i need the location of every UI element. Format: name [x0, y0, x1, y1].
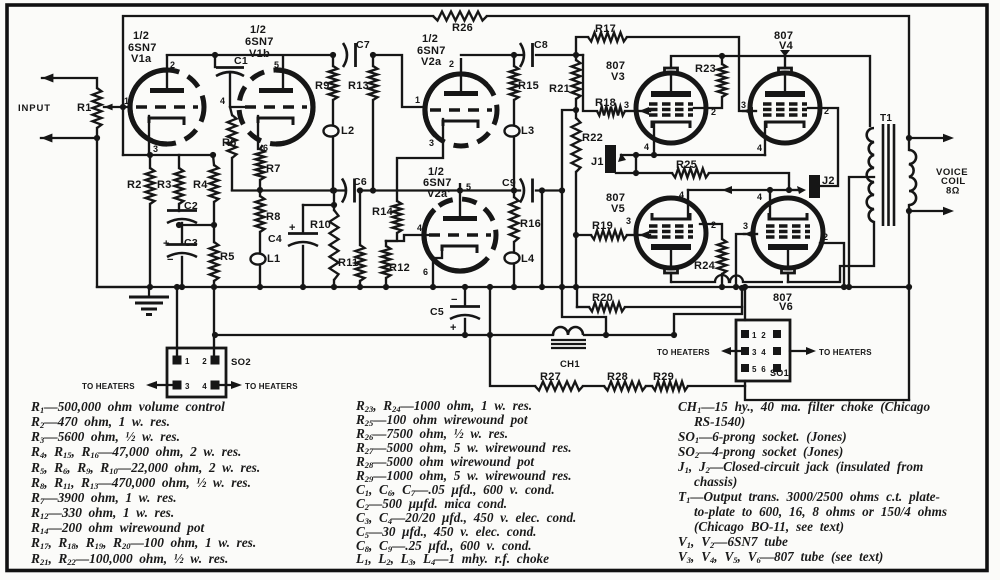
resistor R6 — [228, 115, 237, 158]
inductor L1 — [251, 253, 266, 264]
wire R27-R28 — [583, 385, 604, 387]
SO1 pin 5 — [741, 364, 749, 372]
svg-text:T1: T1 — [880, 113, 892, 124]
SO2 pin 2 — [211, 356, 220, 365]
plate wire with hops — [671, 275, 783, 282]
svg-text:V3: V3 — [611, 71, 625, 83]
tube V1a — [130, 54, 204, 144]
svg-text:INPUT: INPUT — [18, 103, 51, 114]
junction bus C4 — [300, 284, 306, 290]
SO2 pin 3 — [173, 381, 182, 390]
svg-text:5: 5 — [274, 60, 279, 70]
wire bus2 riser staircase — [674, 288, 742, 335]
socket SO1 box — [736, 320, 790, 381]
svg-text:TO HEATERS: TO HEATERS — [245, 382, 298, 391]
junction staircase bus2 — [603, 332, 609, 338]
wire R12 bottom — [385, 278, 387, 287]
capacitor C3 electrolytic — [167, 245, 197, 258]
junction R13 top — [370, 52, 376, 58]
junction bus R10 — [331, 284, 337, 290]
svg-text:4: 4 — [679, 190, 684, 200]
svg-text:1/2: 1/2 — [250, 24, 266, 36]
junction bus R11 — [357, 284, 363, 290]
wire R5 lead — [213, 225, 215, 242]
wire cathode row 807 top — [621, 154, 765, 156]
wire R6 bottom to C6 bus — [231, 158, 233, 190]
resistor R13 — [369, 66, 378, 100]
wire R7 bottom — [259, 180, 261, 196]
wire R23 top lead — [721, 56, 723, 64]
wire R5 bottom through bus to SO2 pin2 — [213, 281, 215, 360]
svg-text:6: 6 — [423, 267, 428, 277]
wire V2b cathode lead — [433, 251, 442, 287]
wire SO2 right arrow line — [220, 384, 236, 386]
resistor R10 — [330, 210, 339, 280]
resistor R27 — [535, 382, 583, 391]
junction bus2 pin2 — [212, 332, 218, 338]
svg-text:TO HEATERS: TO HEATERS — [657, 348, 710, 357]
wire 542 vertical — [541, 191, 543, 288]
resistor R16 — [510, 197, 519, 242]
wire R3 to C2 — [178, 204, 180, 211]
resistor R8 — [256, 196, 265, 232]
capacitor C9 — [520, 179, 533, 203]
svg-text:TO HEATERS: TO HEATERS — [819, 348, 872, 357]
resistor R2 — [146, 168, 155, 204]
svg-text:3: 3 — [626, 216, 631, 226]
svg-text:4: 4 — [757, 192, 762, 202]
SO1 pin 2 — [773, 330, 781, 338]
svg-text:3: 3 — [153, 144, 158, 154]
junction centre tap bus — [846, 284, 852, 290]
junction R19 tap — [573, 232, 579, 238]
capacitor C5 electrolytic — [450, 307, 480, 320]
junction bus2 riser — [671, 332, 677, 338]
output arrow bottom — [943, 207, 954, 215]
wire R25 row right — [709, 173, 789, 190]
svg-text:TO HEATERS: TO HEATERS — [82, 382, 135, 391]
junction V6 cathode — [767, 187, 773, 193]
potentiometer R1 — [93, 88, 102, 128]
svg-text:R4: R4 — [193, 179, 208, 191]
wire V1b cathode lead — [258, 116, 260, 149]
junction J1 link bottom — [633, 170, 639, 176]
svg-text:1: 1 — [124, 96, 129, 106]
wire V1a cathode lead — [148, 116, 150, 155]
wire C2-C3 junction — [181, 223, 183, 243]
wire V3 grid stub — [639, 110, 650, 112]
svg-text:R12: R12 — [389, 262, 410, 274]
wire R20 left stub — [577, 306, 589, 308]
wire ground bus — [97, 286, 909, 288]
V4 grid arrow — [743, 107, 753, 115]
wire secondary return — [908, 211, 910, 400]
tube V3 — [636, 68, 706, 143]
wire staircase left — [562, 288, 606, 335]
wire V6 grid stub — [744, 233, 757, 235]
svg-text:V6: V6 — [779, 301, 793, 313]
svg-text:CH1: CH1 — [560, 359, 580, 370]
junction R21 top — [573, 52, 579, 58]
junction R20 node bus — [739, 285, 745, 291]
inductor L2 — [324, 125, 339, 136]
junction R2 top — [147, 152, 153, 158]
svg-text:3: 3 — [624, 100, 629, 110]
resistor R4 — [210, 165, 219, 202]
tube V6 — [753, 198, 823, 273]
svg-text:C3: C3 — [184, 237, 198, 249]
junction R4 top — [210, 152, 216, 158]
resistor R18 — [597, 107, 625, 116]
svg-text:1: 1 — [752, 331, 757, 340]
svg-text:3: 3 — [185, 382, 190, 391]
svg-text:R7: R7 — [266, 163, 281, 175]
junction bus C3 — [179, 284, 185, 290]
svg-text:R2: R2 — [127, 179, 142, 191]
wire J1 link — [635, 155, 637, 173]
wire R3 lead top — [178, 155, 180, 168]
junction R11 top — [357, 187, 363, 193]
svg-text:L2: L2 — [341, 125, 354, 137]
wire V2a cathode to R14 — [397, 119, 443, 201]
svg-text:6SN7: 6SN7 — [245, 36, 274, 48]
wire CH1 right — [584, 334, 674, 336]
wire R19 left lead — [576, 234, 591, 236]
svg-text:2: 2 — [170, 60, 175, 70]
wire V4 grid stub — [743, 110, 756, 112]
junction C1 tap — [212, 52, 218, 58]
potentiometer R14 — [393, 201, 402, 233]
svg-text:SO2: SO2 — [231, 357, 251, 368]
resistor R24 — [718, 239, 727, 274]
wire R16 to L4 — [513, 242, 515, 252]
wire cathode row stage1 — [123, 154, 213, 156]
svg-text:3: 3 — [743, 221, 748, 231]
resistor R23 — [718, 64, 727, 97]
junction C2 C3 — [176, 222, 182, 228]
transformer T1 primary — [867, 128, 874, 222]
wire V6 grid feed — [736, 234, 745, 287]
junction R27 drop bus2 — [487, 332, 493, 338]
wire C4 riser — [302, 205, 304, 233]
junction R1 lower arrow — [94, 135, 100, 141]
svg-text:V1b: V1b — [249, 48, 270, 60]
SO1 pin 4 — [773, 347, 781, 355]
wire C2C3 to R5 column — [179, 224, 214, 226]
svg-text:1/2: 1/2 — [422, 33, 438, 45]
V3 grid arrow — [639, 107, 649, 115]
wire T1 centre tap — [849, 177, 874, 287]
svg-text:2: 2 — [449, 59, 454, 69]
wire SO1 right arrow line — [790, 350, 810, 352]
junction bus R5 — [211, 284, 217, 290]
SO1 pin 1 — [741, 330, 749, 338]
wire R10 leads — [333, 191, 335, 210]
svg-text:R21: R21 — [549, 83, 570, 95]
wire C1 to V1b grid — [230, 74, 245, 107]
junction bus C5 — [462, 284, 468, 290]
resistor R7 — [256, 149, 265, 180]
wire V2b grid lead — [386, 235, 429, 241]
wire bus C9 right — [536, 189, 562, 191]
socket SO2 box — [167, 348, 226, 397]
svg-text:R22: R22 — [582, 132, 603, 144]
junction R27 drop top — [487, 284, 493, 290]
junction R15-L3 bottom / R16 top — [511, 187, 517, 193]
wire SO2 left arrow line — [150, 384, 172, 386]
svg-text:V2a: V2a — [421, 56, 442, 68]
junction bus SO1 riser — [742, 284, 748, 290]
svg-text:1: 1 — [415, 95, 420, 105]
wire V4 cathode riser — [764, 122, 766, 155]
svg-text:V5: V5 — [611, 203, 625, 215]
wire input upper lead — [42, 78, 97, 88]
wire R10 bottom — [333, 280, 335, 287]
svg-text:R26: R26 — [452, 22, 473, 34]
wire R27 drop — [490, 287, 535, 386]
potentiometer R25 — [672, 169, 709, 178]
V5 grid arrow — [639, 231, 649, 239]
tube V2a — [425, 58, 497, 146]
svg-text:−: − — [167, 254, 174, 266]
tube V4 — [750, 68, 820, 143]
wire V4 screen to J2 — [808, 108, 838, 186]
wire R11 leads — [359, 191, 361, 246]
wire bus C8 right — [536, 54, 583, 56]
tube V2b — [424, 183, 496, 271]
wire plate line V3 V4 — [671, 56, 870, 126]
resistor R15 — [510, 66, 519, 100]
svg-text:V1a: V1a — [131, 53, 152, 65]
wire R4 bottom — [213, 202, 215, 225]
wire bus C6 right — [358, 189, 520, 191]
svg-text:J2: J2 — [822, 175, 835, 187]
wire V3 screen to R23 — [694, 97, 722, 108]
resistor R9 — [329, 66, 338, 100]
wire V5 V6 cathode row — [688, 189, 789, 191]
wire R29 to SO1 — [688, 385, 745, 387]
junction feedback tap — [906, 135, 912, 141]
capacitor C2 — [167, 211, 197, 224]
wire R4 lead top — [213, 155, 214, 165]
resistor R11 — [356, 245, 365, 281]
capacitor C6 — [342, 179, 355, 203]
wire V5 grid stub — [639, 234, 650, 236]
wire R22 leads — [575, 110, 577, 118]
wire R9 leads — [332, 55, 334, 66]
wire V5 plate lead — [670, 273, 672, 282]
wire feedback left segment — [123, 16, 433, 155]
wire plate wire to primary — [788, 222, 874, 282]
R25 wiper arrow — [722, 186, 732, 194]
wire R11 bottom — [359, 281, 361, 287]
wire R1 wiper — [104, 106, 130, 108]
junction R7 R8 — [257, 187, 263, 193]
wire R12 leads — [385, 241, 387, 246]
resistor R5 — [210, 242, 219, 281]
resistor R20 — [589, 303, 625, 312]
svg-text:C4: C4 — [268, 233, 282, 245]
ground symbol — [129, 287, 169, 315]
svg-text:R23: R23 — [695, 63, 716, 75]
wire V5 screen to R24 — [700, 224, 722, 239]
junction 542 bus — [539, 284, 545, 290]
svg-text:R16: R16 — [520, 218, 541, 230]
junction R23 tap — [719, 53, 725, 59]
junction R10 link — [331, 202, 337, 208]
wire R21 bottom — [575, 99, 577, 110]
wire R9 to L2 — [332, 100, 334, 125]
wire C1 column — [214, 55, 216, 67]
transformer T1 secondary — [909, 150, 916, 205]
junction R9 top — [330, 52, 336, 58]
wire R6 leads — [230, 107, 232, 115]
wire C4 bottom — [302, 246, 304, 287]
svg-text:6: 6 — [761, 365, 766, 374]
wire R13 leads — [372, 55, 374, 66]
wire plate bus stage1 — [167, 54, 330, 56]
junction J1 link top — [633, 152, 639, 158]
svg-text:L3: L3 — [521, 125, 534, 137]
inductor L4 — [505, 252, 520, 263]
capacitor C7 — [343, 43, 356, 67]
svg-text:4: 4 — [220, 96, 225, 106]
wire SO1 bottom drop — [745, 381, 909, 400]
svg-text:L4: L4 — [521, 253, 535, 265]
wire L2 to C6 bus — [332, 137, 334, 190]
svg-text:1: 1 — [185, 357, 190, 366]
R1 wiper arrow — [104, 104, 113, 111]
junction bus R12 — [383, 284, 389, 290]
transformer T1 core — [883, 124, 894, 226]
wire R7 lead — [260, 146, 262, 149]
junction bus pin1 — [174, 284, 180, 290]
resistor R22 — [572, 118, 581, 172]
wire C7 bus to V2a grid step — [373, 55, 425, 107]
svg-text:R10: R10 — [310, 219, 331, 231]
tube V1b — [239, 54, 313, 144]
J2 contact arrow — [797, 186, 806, 194]
wire L3 to C9 bus — [513, 137, 515, 191]
svg-text:R24: R24 — [694, 260, 716, 272]
wire R15 leads — [513, 55, 515, 66]
wire R16 leads — [513, 191, 515, 198]
svg-text:C6: C6 — [353, 176, 367, 188]
choke CH1 — [553, 327, 583, 335]
svg-text:−: − — [451, 294, 458, 306]
wire R17 to V4 grid — [627, 37, 748, 111]
SO2 left heater arrow — [146, 381, 157, 389]
svg-text:C1: C1 — [234, 55, 248, 67]
junction V6 screen bus — [841, 284, 847, 290]
wire R2 lead top — [149, 155, 151, 168]
wire C5 bottom — [464, 319, 466, 335]
svg-text:V2a': V2a' — [427, 188, 450, 200]
junction V3 cathode — [651, 152, 657, 158]
wire R19 to V5 grid — [627, 234, 634, 236]
J1 contact arrow — [618, 153, 626, 162]
wire R22 bottom — [575, 172, 577, 287]
wire feedback right segment — [487, 16, 909, 138]
wire V6 screen drop — [820, 243, 844, 287]
choke CH1 core — [551, 340, 586, 348]
wire secondary top out — [909, 138, 948, 150]
resistor R21 — [572, 60, 581, 99]
wire R15 to L3 — [513, 100, 515, 125]
wire R25 row left — [616, 172, 672, 174]
svg-text:J1: J1 — [591, 156, 604, 168]
wire R18 riser — [583, 55, 597, 111]
capacitor C4 electrolytic — [288, 234, 318, 247]
svg-text:C2: C2 — [184, 200, 198, 212]
wire SO1 top riser — [744, 287, 746, 320]
junction R15 top — [511, 52, 517, 58]
wire V6 plate lead — [787, 273, 789, 282]
wire R17 left lead — [576, 37, 588, 55]
input arrow lower — [41, 134, 52, 143]
svg-text:L1: L1 — [267, 253, 280, 265]
jack J1 — [605, 145, 616, 173]
wire R18 to V3 grid — [625, 110, 634, 112]
wire C5 top — [464, 287, 466, 306]
wire R20 left lead — [576, 287, 578, 307]
junction bus L1 — [257, 284, 263, 290]
junction node R21 R22 — [573, 107, 579, 113]
svg-text:C8: C8 — [534, 39, 548, 51]
wire R13 bottom to C6 bus — [372, 100, 374, 190]
SO1 right heater arrow — [806, 347, 816, 355]
junction bus L4 — [511, 284, 517, 290]
wire heater bus2 — [215, 334, 553, 336]
resistor R26 — [433, 12, 487, 21]
junction C9 bus to riser — [559, 187, 565, 193]
svg-text:5: 5 — [466, 182, 471, 192]
resistor R12 — [382, 246, 391, 278]
svg-text:R9: R9 — [315, 80, 330, 92]
wire input lower lead — [41, 137, 97, 139]
wire R8 to L1 — [259, 232, 261, 253]
output arrow top — [943, 134, 954, 142]
wire V4 cap riser — [784, 56, 786, 68]
SO2 right heater arrow — [231, 381, 242, 389]
SO1 pin 3 — [741, 347, 749, 355]
wire R28-R29 — [646, 385, 652, 387]
svg-text:R5: R5 — [220, 251, 235, 263]
wire J2 stub — [789, 189, 800, 191]
wire node to C9 riser — [562, 110, 576, 287]
svg-text:+: + — [450, 322, 457, 334]
junction V6 grid riser — [733, 284, 739, 290]
wire V6 cathode riser — [769, 190, 771, 219]
input arrow upper — [42, 74, 53, 83]
capacitor C8 — [520, 43, 533, 67]
junction bus V2b cathode — [430, 284, 436, 290]
SO1 pin 6 — [773, 364, 781, 372]
junction R25 corner — [786, 187, 792, 193]
svg-text:8Ω: 8Ω — [946, 186, 960, 197]
junction R5 top — [211, 222, 217, 228]
V4 plate node marker — [780, 50, 790, 57]
wire R24 bottom — [721, 274, 723, 287]
junction bus R2 — [147, 284, 153, 290]
svg-text:C5: C5 — [430, 306, 444, 318]
wire R2 bottom — [149, 204, 151, 287]
svg-text:SO1: SO1 — [770, 368, 789, 378]
resistor R19 — [591, 231, 627, 240]
wire SO1 left arrow line — [725, 350, 741, 352]
junction R10 bus — [331, 187, 337, 193]
svg-text:4: 4 — [757, 143, 762, 153]
